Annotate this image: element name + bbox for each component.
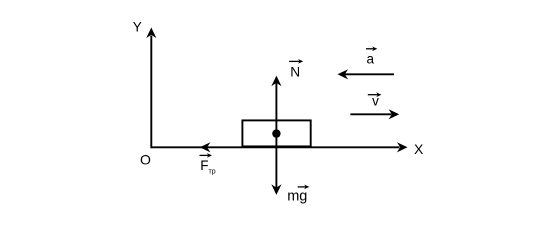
svg-text:N: N: [290, 65, 300, 80]
svg-text:X: X: [414, 141, 424, 157]
svg-text:Y: Y: [133, 20, 142, 35]
svg-text:тр: тр: [209, 169, 216, 176]
svg-text:O: O: [140, 151, 151, 167]
svg-text:a: a: [367, 52, 375, 67]
svg-text:mg: mg: [287, 189, 307, 205]
svg-text:v: v: [372, 94, 379, 109]
svg-text:F: F: [200, 158, 208, 173]
